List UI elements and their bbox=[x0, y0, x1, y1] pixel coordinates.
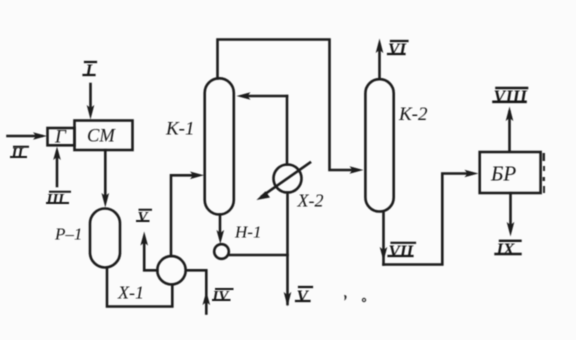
mixer box Г bbox=[48, 128, 75, 145]
label II bbox=[11, 146, 29, 162]
mixer box СМ bbox=[75, 121, 133, 151]
svg-text:Х-2: Х-2 bbox=[297, 191, 324, 211]
wire stream I into СМ bbox=[87, 84, 95, 120]
wire СМ to Р-1 bbox=[102, 150, 110, 207]
wire stream IX from БР bbox=[507, 193, 515, 236]
wire reflux into К-1 from Х-2 bbox=[237, 92, 288, 164]
wire Х-2 down to stream V bbox=[284, 193, 292, 307]
wire stream II into Г bbox=[8, 132, 48, 140]
column К-2 bbox=[365, 79, 393, 211]
svg-text:IX: IX bbox=[496, 240, 516, 259]
svg-text:VIII: VIII bbox=[494, 87, 528, 107]
reactor Р-1 bbox=[90, 209, 120, 268]
svg-text:V: V bbox=[297, 287, 310, 306]
wire К-1 bottoms to pump Н-1 bbox=[217, 215, 225, 245]
svg-text:I: I bbox=[85, 61, 94, 80]
svg-text:Х-1: Х-1 bbox=[117, 283, 144, 303]
wire stream IV into Х-1 line bbox=[186, 270, 210, 313]
label VIII bbox=[494, 87, 528, 107]
svg-text:К-2: К-2 bbox=[398, 104, 428, 125]
label III bbox=[46, 192, 71, 208]
label IV bbox=[212, 289, 233, 305]
wire Р-1 bottom to Х-1 bbox=[107, 268, 172, 307]
wire stream VI from К-2 top bbox=[376, 39, 384, 80]
scan speck comma bbox=[344, 295, 347, 301]
wire stream VIII from БР bbox=[506, 107, 514, 152]
scan speck circle bbox=[362, 298, 365, 301]
svg-text:К-1: К-1 bbox=[165, 119, 194, 140]
wire stream V from Х-1 bbox=[140, 232, 157, 271]
svg-text:БР: БР bbox=[490, 162, 516, 186]
scan smudge right of БР bbox=[543, 153, 546, 193]
svg-text:V: V bbox=[138, 210, 150, 226]
svg-text:III: III bbox=[46, 192, 66, 208]
wire pump discharge to V line bbox=[229, 254, 288, 257]
wire stream III into Г bbox=[53, 147, 61, 187]
wire К-1 overhead to К-2 bbox=[218, 40, 364, 174]
svg-text:Р–1: Р–1 bbox=[54, 225, 82, 244]
svg-text:СМ: СМ bbox=[87, 127, 116, 147]
label VII bbox=[389, 242, 416, 261]
pump Н-1 bbox=[214, 244, 229, 259]
label V left bbox=[137, 210, 151, 226]
label V bottom bbox=[296, 287, 312, 306]
unit БР bbox=[480, 152, 541, 193]
svg-text:Г: Г bbox=[54, 127, 67, 148]
svg-text:IV: IV bbox=[212, 289, 231, 305]
svg-text:Н-1: Н-1 bbox=[234, 223, 261, 242]
label IX bbox=[496, 240, 521, 259]
wire Х-1 to К-1 feed bbox=[171, 172, 204, 257]
cooler Х-1 bbox=[157, 256, 185, 284]
svg-text:II: II bbox=[11, 146, 25, 162]
label VI bbox=[388, 40, 408, 59]
wire К-2 bottoms stream VII bbox=[380, 212, 388, 265]
svg-text:VII: VII bbox=[389, 242, 415, 261]
label I bbox=[84, 61, 97, 80]
svg-text:VI: VI bbox=[388, 40, 407, 59]
column К-1 bbox=[205, 78, 234, 214]
air cooler Х-2 bbox=[257, 163, 311, 201]
wire К-2 bottoms to БР bbox=[384, 170, 479, 265]
